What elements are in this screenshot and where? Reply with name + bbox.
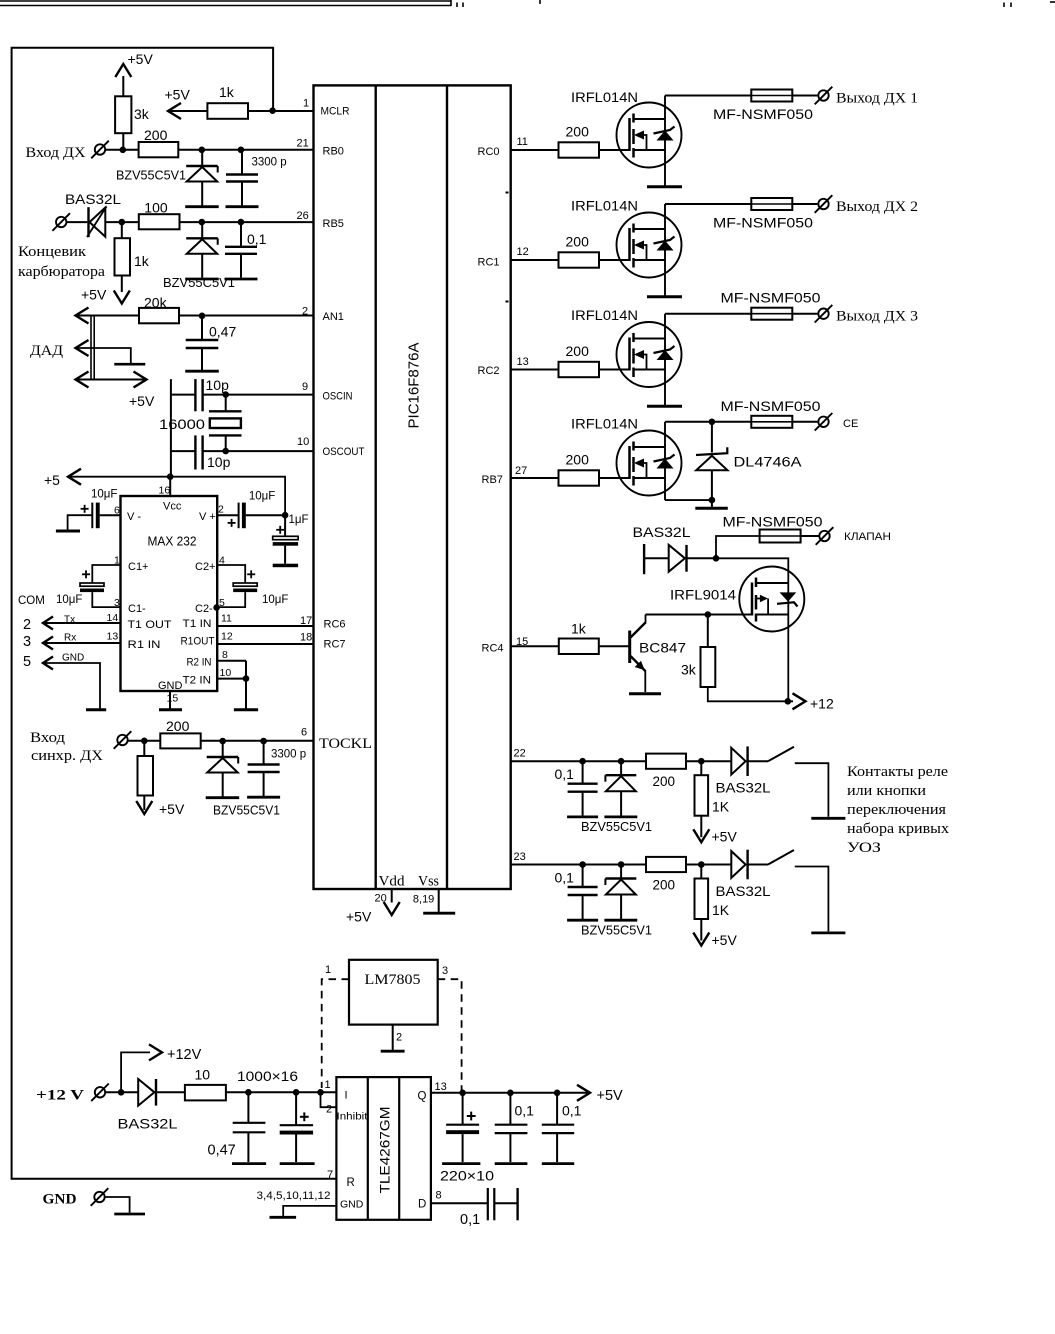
svg-text:R: R — [347, 1177, 355, 1189]
switch terminal (row 22) — [795, 763, 829, 817]
ground (TLE GND) — [270, 1216, 297, 1219]
IC U1 PIC16F876A body — [314, 85, 511, 889]
resistor 3k — [701, 647, 716, 687]
svg-text:13: 13 — [435, 1081, 447, 1093]
svg-text:1μF: 1μF — [289, 514, 309, 526]
ground (GND input) — [114, 1213, 145, 1216]
resistor 200 (row 4) — [559, 470, 600, 485]
ground (switch row 23) — [811, 932, 845, 935]
wire pin 12 R1OUT to pin 18 RC7 — [217, 643, 313, 645]
svg-text:MF-NSMF050: MF-NSMF050 — [713, 107, 813, 122]
arrow ДАД bottom left — [76, 372, 89, 388]
svg-text:BAS32L: BAS32L — [65, 191, 121, 207]
output wire (row 2) — [665, 203, 751, 205]
svg-text:3,4,5,10,11,12: 3,4,5,10,11,12 — [257, 1190, 331, 1202]
svg-text:BZV55C5V1: BZV55C5V1 — [581, 819, 652, 834]
svg-text:V +: V + — [199, 511, 216, 523]
svg-text:переключения: переключения — [847, 802, 946, 818]
svg-text:0,1: 0,1 — [460, 1212, 480, 1228]
svg-text:RB5: RB5 — [323, 218, 344, 230]
capacitor 0,1 (D pin) — [488, 1188, 495, 1220]
capacitor 0,47 (input) — [233, 1092, 266, 1162]
svg-text:BAS32L: BAS32L — [716, 883, 771, 899]
wire Vcc feed — [169, 477, 171, 496]
svg-text:9: 9 — [302, 381, 308, 393]
ground (BC847 emitter) — [629, 692, 661, 695]
svg-text:GND: GND — [158, 680, 183, 692]
svg-text:200: 200 — [566, 452, 590, 468]
svg-text:MF-NSMF050: MF-NSMF050 — [721, 291, 821, 306]
oscillator ground rail — [170, 379, 172, 477]
dashed wire LM7805 input — [322, 979, 349, 1088]
svg-text:R2 IN: R2 IN — [187, 657, 212, 669]
junction C2- stub — [213, 604, 220, 611]
svg-text:Rx: Rx — [64, 633, 76, 644]
ground (V- cap) — [56, 530, 80, 533]
svg-text:Inhibit: Inhibit — [337, 1111, 368, 1123]
transistor BC847 — [630, 615, 646, 693]
ДАД bottom wire — [76, 379, 147, 381]
svg-text:0,47: 0,47 — [209, 324, 236, 340]
resistor 20k (AN1) — [139, 308, 179, 323]
+5V arrow (MCLR pull-up) — [168, 103, 181, 119]
svg-text:LM7805: LM7805 — [365, 972, 421, 988]
svg-text:BZV55C5V1: BZV55C5V1 — [581, 923, 652, 938]
svg-text:+5V: +5V — [597, 1088, 624, 1104]
svg-text:I: I — [345, 1090, 348, 1102]
svg-text:T1 IN: T1 IN — [183, 618, 212, 630]
diode BAS32L (row 23) — [731, 850, 747, 880]
wire fuse to connector (row 2) — [792, 203, 817, 205]
wire pin 22 to R 200 — [511, 760, 646, 762]
svg-text:AN1: AN1 — [323, 311, 344, 323]
svg-text:16: 16 — [159, 485, 171, 497]
svg-text:УОЗ: УОЗ — [847, 840, 881, 856]
svg-text:+5V: +5V — [712, 829, 738, 845]
IC U4 TLE4267GM body — [336, 1077, 431, 1220]
fuse MF-NSMF050 (row 3) — [751, 308, 792, 320]
svg-text:5: 5 — [219, 597, 225, 609]
arrow ДАД bottom right — [134, 372, 147, 388]
svg-text:C2-: C2- — [195, 603, 213, 615]
switch contact (row 23) — [768, 850, 794, 865]
ground (0,47) — [232, 1162, 266, 1165]
wire V- cap to pin 6 — [100, 514, 121, 516]
wire connector to diode — [67, 221, 88, 223]
fuse MF-NSMF050 (row 1) — [751, 90, 792, 102]
junction 0,1 a — [507, 1090, 514, 1097]
svg-text:+5V: +5V — [165, 87, 191, 103]
svg-text:C1+: C1+ — [128, 561, 149, 573]
ДАД sensor bus lines — [91, 316, 94, 380]
connector output (row 1) — [818, 90, 828, 100]
wire MAX232 GND — [169, 691, 171, 709]
+5V arrow down (Концевик) — [114, 291, 130, 304]
wire C1 cap to pin 3 — [92, 592, 120, 607]
wire ДАД middle to bar — [76, 348, 131, 363]
capacitor 10p (OSCOUT) — [195, 435, 202, 469]
svg-text:BC847: BC847 — [639, 640, 686, 656]
wire junction to gate — [708, 614, 752, 616]
svg-text:5: 5 — [23, 654, 31, 670]
wire Vss — [438, 889, 440, 912]
capacitor 10uF (V-) — [92, 503, 99, 529]
IC U3 LM7805 body — [349, 960, 438, 1025]
svg-text:+5V: +5V — [128, 51, 154, 67]
svg-text:+12: +12 — [810, 696, 834, 712]
drain wire (row 2) — [664, 204, 666, 229]
svg-text:Выход ДХ 1: Выход ДХ 1 — [836, 91, 918, 107]
svg-text:12: 12 — [221, 631, 233, 643]
ground (switch row 22) — [811, 817, 845, 820]
svg-text:V -: V - — [127, 511, 141, 523]
svg-text:100: 100 — [144, 200, 168, 216]
wire fuse to connector (row 1) — [792, 95, 817, 97]
wire connector to R 200 — [105, 149, 138, 151]
svg-text:14: 14 — [107, 612, 119, 624]
svg-text:0,1: 0,1 — [515, 1103, 535, 1119]
svg-text:Контакты реле: Контакты реле — [847, 764, 948, 780]
svg-text:1K: 1K — [712, 902, 730, 918]
svg-text:IRFL014N: IRFL014N — [571, 89, 638, 105]
wire R 200 to diode (row 23) — [686, 864, 731, 866]
wire rail to C 10p top — [171, 394, 196, 396]
junction cap RB5 — [238, 219, 245, 226]
wire pin 8 R2IN — [217, 660, 246, 662]
wire Tx to pin 14 — [43, 622, 121, 624]
wire bar to diode — [644, 557, 669, 559]
svg-text:RC6: RC6 — [324, 619, 346, 631]
svg-text:IRFL014N: IRFL014N — [571, 198, 638, 214]
svg-text:0,1: 0,1 — [555, 766, 575, 782]
arrow Tx — [43, 617, 53, 630]
wire fuse to connector (row 3) — [792, 313, 817, 315]
wire V+ cap to 1uF node — [246, 514, 285, 516]
capacitor 0,1 (row 23) — [567, 865, 598, 921]
plus mark (V- cap) — [81, 505, 89, 513]
svg-text:синхр. ДХ: синхр. ДХ — [31, 748, 103, 764]
svg-text:GND: GND — [43, 1192, 77, 1208]
zener BZV55C5V1 (row 22) — [604, 761, 637, 817]
svg-text:200: 200 — [166, 718, 190, 734]
wire RB5 node to R 1k — [121, 222, 123, 238]
svg-text:7: 7 — [327, 1169, 333, 1181]
wire R 3k to +12 rail — [708, 687, 793, 701]
svg-text:200: 200 — [653, 878, 676, 893]
wire C 10p to pin 10 OSCOUT — [203, 450, 314, 452]
capacitor 1uF — [273, 515, 298, 567]
wire rail to C 10p bottom — [171, 450, 196, 452]
resistor (TOCKL pulldown) — [138, 756, 154, 796]
svg-text:MF-NSMF050: MF-NSMF050 — [721, 399, 821, 414]
svg-text:Vcc: Vcc — [163, 501, 182, 513]
junction cap RB0 — [238, 147, 245, 154]
svg-text:2: 2 — [218, 504, 224, 516]
wire R 1k to +5V arrow — [121, 276, 123, 293]
MOSFET IRFL9014 — [739, 567, 804, 632]
stray mark a — [506, 192, 509, 194]
svg-text:22: 22 — [514, 748, 526, 760]
wire junction to pulldown resistor — [143, 741, 145, 756]
connector output (row 2) — [818, 199, 828, 209]
wire pin 10 T2IN — [217, 678, 246, 680]
svg-text:IRFL9014: IRFL9014 — [670, 587, 736, 603]
svg-text:17: 17 — [300, 615, 312, 627]
svg-text:10p: 10p — [206, 377, 230, 393]
resistor 1K (row 23) — [695, 865, 709, 941]
svg-text:23: 23 — [514, 851, 526, 863]
resistor 200 (row 22) — [646, 754, 686, 769]
svg-text:6: 6 — [301, 727, 307, 739]
wire R 200 to pin 6 TOCKL — [201, 740, 314, 742]
svg-text:R1OUT: R1OUT — [181, 636, 215, 648]
arrow Rx — [43, 637, 53, 650]
wire pin 15 RC4 to R 1k — [511, 645, 559, 647]
svg-text:RB7: RB7 — [482, 474, 503, 486]
connector клапан — [819, 531, 829, 541]
svg-text:13: 13 — [107, 631, 119, 643]
junction cap (row 23) — [579, 861, 586, 868]
capacitor 3300p (TOCKL) — [247, 741, 280, 797]
svg-text:2: 2 — [23, 617, 31, 633]
svg-text:MF-NSMF050: MF-NSMF050 — [723, 515, 823, 530]
svg-text:11: 11 — [517, 136, 528, 148]
stray mark b — [506, 301, 509, 303]
wire resistor to gate (row 1) — [599, 149, 630, 151]
svg-text:18: 18 — [300, 632, 312, 644]
svg-text:13: 13 — [517, 356, 529, 368]
MOSFET IRFL014N (row 2) — [617, 213, 683, 297]
junction zener (row 23) — [618, 861, 625, 868]
svg-text:8: 8 — [222, 649, 228, 661]
resistor 200 (row 3) — [559, 362, 600, 377]
svg-text:COM: COM — [18, 595, 45, 607]
terminal bar (клапан diode) — [643, 544, 645, 574]
resistor 1K (row 22) — [695, 761, 709, 837]
wire Vdd — [391, 889, 393, 903]
ground (1000x16) — [280, 1162, 315, 1165]
wire pin 11 T1IN to pin 17 RC6 — [217, 625, 313, 627]
ground (0,1 b) — [542, 1162, 574, 1165]
arrow +5 — [68, 469, 81, 485]
junction MCLR / border — [269, 107, 276, 114]
zener BZV55C5V1 (TOCKL) — [206, 741, 240, 798]
svg-text:0,1: 0,1 — [555, 870, 575, 886]
svg-text:Vss: Vss — [418, 874, 439, 890]
svg-text:3: 3 — [23, 634, 31, 650]
svg-text:Q: Q — [418, 1091, 427, 1103]
arrow GND (DB9) — [43, 657, 53, 670]
svg-text:RC4: RC4 — [482, 643, 504, 655]
capacitor 10p (OSCIN) — [195, 379, 202, 411]
wire pin 1 to C1 cap — [92, 565, 120, 583]
wire diode to junction — [687, 557, 717, 559]
fuse MF-NSMF050 (row 2) — [751, 198, 792, 210]
svg-text:ДАД: ДАД — [30, 343, 63, 359]
svg-text:200: 200 — [144, 127, 168, 143]
svg-text:200: 200 — [566, 234, 590, 250]
svg-text:1k: 1k — [571, 621, 587, 637]
+5V arrow down (TOCKL) — [136, 801, 152, 814]
wire TLE GND to ground — [283, 1206, 336, 1216]
diode BAS32L (RB5) with strike — [87, 207, 107, 238]
svg-text:+5V: +5V — [81, 287, 107, 303]
junction 1K (row 22) — [698, 758, 705, 765]
wire R 200 to diode (row 22) — [686, 760, 731, 762]
svg-text:0,47: 0,47 — [208, 1143, 236, 1159]
wire resistor to gate (row 2) — [599, 259, 630, 261]
svg-text:Выход ДХ 2: Выход ДХ 2 — [836, 199, 918, 215]
svg-text:+12 V: +12 V — [36, 1088, 84, 1104]
drain wire (row 3) — [664, 314, 666, 339]
junction TOCKL pulldown — [141, 738, 148, 745]
junction R2/T2 — [243, 675, 250, 682]
wire GND connector — [105, 1197, 130, 1213]
svg-text:10: 10 — [195, 1067, 211, 1083]
svg-text:+5V: +5V — [159, 801, 185, 817]
svg-text:10μF: 10μF — [91, 489, 117, 501]
wire diode to R 100 — [106, 221, 139, 223]
resistor 1k (MCLR pull-up) — [207, 103, 248, 119]
svg-text:IRFL014N: IRFL014N — [571, 307, 638, 323]
svg-text:0,1: 0,1 — [247, 231, 267, 247]
connector +12 V — [95, 1087, 105, 1097]
connector output (row 3) — [818, 309, 828, 319]
svg-text:TLE4267GM: TLE4267GM — [377, 1107, 393, 1194]
wire +12V stub — [121, 1052, 150, 1092]
svg-text:RC1: RC1 — [478, 257, 500, 269]
wire inhibit stub — [321, 1092, 337, 1107]
junction 0,1 b — [554, 1090, 561, 1097]
svg-text:26: 26 — [297, 210, 309, 222]
ground (Vss) — [423, 912, 455, 915]
wire C 10p to pin 9 OSCIN — [203, 394, 314, 396]
capacitor 3300p (RB0) — [226, 150, 259, 207]
output wire (row 4) — [665, 421, 751, 423]
svg-text:OSCIN: OSCIN — [323, 391, 353, 403]
svg-text:или кнопки: или кнопки — [847, 783, 926, 799]
svg-text:200: 200 — [566, 124, 590, 140]
wire junction to R 3k — [707, 615, 709, 648]
wire resistor to gate (row 3) — [599, 369, 630, 371]
wire fuse to connector (row 4) — [792, 421, 817, 423]
wire junction to fuse — [716, 536, 760, 558]
connector Концевик — [56, 217, 66, 227]
arrow ДАД middle — [76, 340, 89, 356]
top edge artifact lines — [0, 0, 1055, 7]
svg-text:10p: 10p — [207, 454, 231, 470]
ground (MAX232) — [159, 708, 182, 711]
svg-text:BZV55C5V1: BZV55C5V1 — [213, 804, 280, 818]
junction zener bottom — [709, 497, 716, 504]
wire connector to R 200 — [128, 740, 160, 742]
wire pin to gate resistor (row 2) — [511, 259, 559, 261]
svg-text:+5V: +5V — [129, 393, 155, 409]
fuse MF-NSMF050 (row 4) — [751, 416, 792, 428]
+5V arrow down (Vdd) — [384, 902, 400, 915]
wire V- cap to ground — [68, 515, 93, 529]
zener BZV55C5V1 (RB5) — [185, 222, 219, 279]
svg-text:3300 p: 3300 p — [252, 157, 287, 169]
svg-text:+5V: +5V — [346, 909, 372, 925]
svg-text:Концевик: Концевик — [18, 244, 87, 260]
junction 1K (row 23) — [698, 861, 705, 868]
junction 1000x16 — [293, 1089, 300, 1096]
resistor 1k (Концевик pull-down) — [115, 238, 131, 275]
+5V arrow up — [115, 64, 131, 77]
resistor 1k (BC847 base) — [559, 639, 599, 655]
capacitor 0,47 (AN1) — [185, 316, 219, 371]
wire R 10 to TLE pin 1 — [226, 1091, 337, 1093]
capacitor 0,1 b (+5V) — [542, 1093, 574, 1162]
svg-text:набора кривых: набора кривых — [847, 821, 950, 837]
ДАД middle bar — [114, 363, 145, 366]
svg-text:RC7: RC7 — [324, 639, 346, 651]
capacitor 1000x16 — [280, 1092, 313, 1162]
svg-text:2: 2 — [302, 306, 308, 318]
zener BZV55C5V1 (row 23) — [604, 865, 637, 921]
ground (LM7805) — [381, 1050, 405, 1053]
plus mark (C1) — [82, 570, 90, 578]
wire GND to ground — [43, 663, 100, 709]
capacitor 10uF (C2) — [233, 583, 257, 592]
wire MCLR arrow to R 1k — [168, 110, 207, 112]
wire D to cap — [431, 1202, 487, 1204]
svg-text:1: 1 — [303, 98, 309, 110]
junction zener TOCKL — [219, 738, 226, 745]
svg-text:10: 10 — [220, 667, 232, 679]
resistor 200 (RB0) — [139, 142, 179, 157]
svg-text:3: 3 — [442, 965, 448, 977]
svg-text:+5: +5 — [44, 472, 60, 488]
svg-text:10μF: 10μF — [56, 594, 82, 606]
capacitor 10uF (C1) — [80, 583, 104, 592]
svg-text:BZV55C5V1: BZV55C5V1 — [116, 168, 186, 183]
svg-text:OSCOUT: OSCOUT — [323, 446, 365, 458]
svg-text:2: 2 — [396, 1032, 402, 1044]
junction RB5 / 1k — [119, 219, 126, 226]
svg-text:1: 1 — [325, 964, 331, 976]
+5V arrow down (row 23) — [693, 933, 709, 946]
svg-text:8: 8 — [436, 1190, 442, 1202]
wire pin 23 to R 200 — [511, 864, 646, 866]
wire LM7805 GND — [392, 1025, 394, 1050]
arrow +12V — [149, 1044, 162, 1060]
svg-text:BZV55C5V1: BZV55C5V1 — [163, 275, 235, 290]
svg-text:220×10: 220×10 — [440, 1168, 494, 1184]
svg-text:0,1: 0,1 — [562, 1103, 582, 1119]
svg-text:3300 p: 3300 p — [271, 749, 306, 761]
MOSFET IRFL014N (row 1) — [617, 103, 683, 187]
svg-text:2: 2 — [326, 1104, 332, 1116]
MOSFET IRFL014N (row 4) — [617, 431, 682, 496]
arrow +12 — [793, 693, 806, 709]
wire C2 cap to pin 5 — [217, 592, 245, 607]
plus mark (1000x16) — [300, 1112, 309, 1121]
ground (220x10) — [442, 1162, 480, 1165]
capacitor 0,1 (RB5) — [225, 222, 258, 279]
dashed wire LM7805 output — [438, 979, 462, 1090]
capacitor 220x10 — [446, 1093, 479, 1162]
resistor 200 (row 1) — [559, 142, 600, 157]
junction zener RB5 — [199, 219, 206, 226]
capacitor 10uF (V+) — [239, 503, 246, 529]
wire diode to R 10 — [156, 1091, 185, 1093]
svg-text:DL4746A: DL4746A — [734, 454, 803, 470]
source wire M4 to zener — [665, 478, 712, 500]
wire resistor to +5V arrow — [143, 796, 145, 811]
svg-text:+5V: +5V — [712, 932, 738, 948]
